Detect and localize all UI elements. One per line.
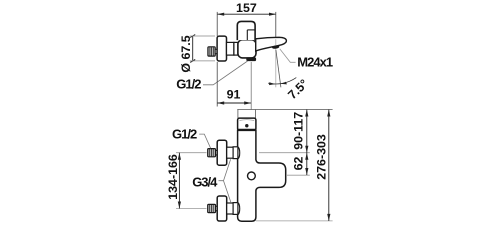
- svg-text:134-166: 134-166: [166, 154, 180, 200]
- svg-text:276-303: 276-303: [315, 134, 329, 180]
- arrow down at 175: [305, 168, 308, 175]
- extension line right of 91: [250, 62, 252, 110]
- bottom wall nut: [208, 204, 216, 212]
- svg-text:Ø 67.5: Ø 67.5: [179, 35, 193, 72]
- svg-text:90-117: 90-117: [292, 112, 306, 150]
- cap (handle end, front view): [238, 118, 256, 130]
- tick bottom of 67.5: [190, 59, 195, 62]
- tick top of 67.5: [190, 35, 195, 38]
- dimension 276-303 line: [328, 110, 330, 221]
- 276-303 arrow top: [327, 110, 330, 117]
- leader G1/2 front: [199, 134, 210, 148]
- mixer body side view: [238, 40, 256, 58]
- corner extension right: [255, 110, 257, 119]
- extension line left of 157 (wall plane): [216, 12, 218, 36]
- dimension 67.5 line: [192, 36, 194, 61]
- dimension 157 arrow right: [269, 13, 276, 16]
- svg-text:G3/4: G3/4: [192, 175, 218, 190]
- top extension line (body top plane): [237, 109, 332, 111]
- cap bottom heavy edge: [238, 129, 256, 131]
- union cylinder end bulge: [238, 43, 240, 55]
- top union cylinder: [233, 147, 238, 159]
- cap shade line: [240, 119, 255, 122]
- bottom extension line: [256, 220, 333, 222]
- top nut stem: [216, 151, 218, 155]
- top fitting ext line from left: [176, 152, 207, 154]
- extension line left of 91: [216, 62, 218, 107]
- 91 arrow left: [217, 101, 224, 104]
- top union bulge: [238, 147, 240, 159]
- dimension 134-166 line: [178, 153, 180, 209]
- 7.5 arc arrow right: [281, 82, 287, 85]
- nut stem: [215, 49, 217, 53]
- svg-text:M24x1: M24x1: [297, 55, 333, 70]
- knob circle (front view): [248, 172, 256, 180]
- cap dot: [245, 124, 248, 127]
- extension line top 67.5: [190, 35, 215, 37]
- wall nut (knurled) side view: [208, 47, 215, 56]
- 276-303 arrow bottom: [327, 214, 330, 221]
- top neck: [227, 147, 233, 158]
- leader G3/4 fork: [219, 159, 232, 203]
- dimension 91 line: [217, 102, 251, 104]
- aerator (dark): [272, 45, 280, 49]
- grey reference line through spout (7.5 deg vertical): [275, 39, 277, 87]
- 7.5 arc arrow left: [269, 82, 275, 85]
- svg-text:157: 157: [236, 1, 257, 15]
- body bar + spout outline (front view): [238, 130, 286, 221]
- bottom neck: [227, 203, 233, 214]
- leader M24x1: [280, 49, 296, 62]
- bottom union bulge: [238, 203, 240, 215]
- extension line bottom 67.5: [190, 60, 215, 62]
- dimension 90-117/62 line: [306, 110, 308, 176]
- leader G1/2 to collar: [203, 61, 248, 85]
- bottom union cylinder: [233, 203, 238, 215]
- top escutcheon: [217, 140, 227, 165]
- spout side view: [256, 37, 287, 51]
- dimension 157 arrow left: [217, 13, 224, 16]
- extension line right of 157 (aerator axis): [275, 12, 277, 38]
- dimension 157 line: [217, 13, 276, 15]
- handle lever side view: [237, 21, 255, 40]
- 134-166 arrow bottom: [178, 202, 181, 209]
- bottom fitting ext line from left: [176, 208, 207, 210]
- svg-text:91: 91: [227, 88, 241, 102]
- neck cylinder side view: [227, 42, 234, 55]
- arrow up at 109.7: [305, 110, 308, 117]
- 91 arrow right: [244, 101, 251, 104]
- top wall nut: [208, 149, 216, 157]
- ext line right at spout axis: [286, 174, 310, 176]
- svg-text:62: 62: [292, 157, 306, 171]
- 7.5 deg arc: [268, 78, 296, 84]
- bottom nut stem: [216, 206, 218, 210]
- union cylinder side view: [234, 42, 238, 55]
- 134-166 arrow top: [178, 153, 181, 160]
- ext line right at fitting axis: [259, 152, 310, 154]
- escutcheon side view: [217, 36, 226, 61]
- arrows at 152.7: [305, 146, 308, 153]
- handle stem inner lines: [247, 29, 255, 31]
- corner extension left: [237, 110, 239, 119]
- 7.5 deg slanted line: [276, 50, 281, 87]
- svg-text:G1/2: G1/2: [172, 126, 197, 141]
- svg-text:G1/2: G1/2: [176, 77, 201, 92]
- bottom escutcheon: [217, 196, 227, 221]
- shower outlet collar under body (dark): [246, 57, 256, 61]
